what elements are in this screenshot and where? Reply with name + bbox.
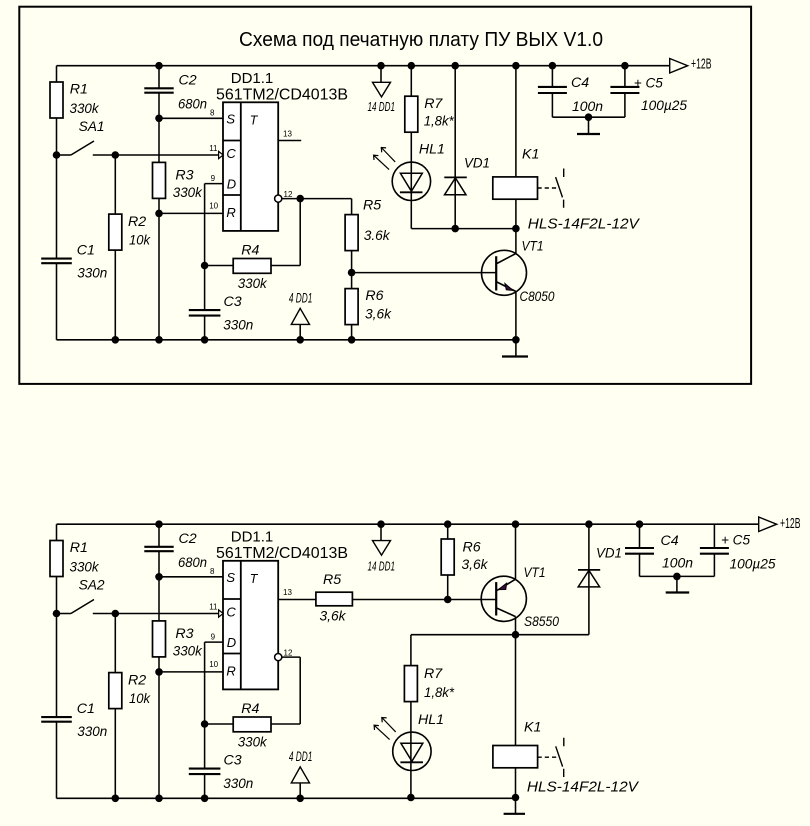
- node K1 ground rail B: [512, 794, 520, 802]
- label C8050: [520, 289, 555, 305]
- pin number 9: [211, 174, 216, 183]
- wire pin 8 S: [159, 117, 223, 119]
- label R7 B: [424, 666, 454, 701]
- svg-text:R2: R2: [128, 214, 146, 230]
- svg-text:330n: 330n: [223, 776, 253, 792]
- svg-text:HL1: HL1: [418, 712, 444, 728]
- capacitor C4 B: [625, 548, 654, 554]
- resistor R5: [345, 215, 358, 251]
- label 4 DD1: [289, 289, 313, 305]
- capacitor C3: [189, 310, 221, 316]
- label 561TM2/CD4013B: [216, 545, 348, 562]
- label +12V B: [780, 516, 801, 532]
- label C1: [77, 243, 108, 282]
- svg-text:R7: R7: [424, 666, 443, 682]
- svg-text:9: 9: [211, 633, 216, 642]
- label HL1 B: [418, 712, 444, 728]
- label 4 DD1: [289, 748, 313, 764]
- wire C2/R3 column: [158, 66, 160, 340]
- label R2: [128, 214, 151, 249]
- wire 4DD1 stub: [299, 324, 301, 339]
- svg-text:R4: R4: [241, 242, 259, 258]
- transistor VT1 base bar B: [495, 582, 497, 615]
- wire R7/HL1 column: [410, 66, 412, 229]
- resistor R7 B: [404, 666, 417, 702]
- wire pin 8 S: [159, 576, 223, 578]
- label 14 DD1 B: [368, 559, 396, 574]
- svg-text:T: T: [250, 114, 259, 128]
- svg-text:D: D: [227, 177, 236, 192]
- wire pin 12 to R5: [282, 198, 352, 200]
- wire R4 left: [205, 723, 234, 725]
- label C3: [223, 294, 253, 333]
- wire 14DD1 stub: [380, 66, 382, 83]
- svg-text:+ C5: + C5: [634, 76, 663, 92]
- wire R7/HL1 column B: [410, 635, 412, 798]
- wire VT1 emitter column: [515, 292, 517, 340]
- pin number 13: [283, 130, 292, 139]
- transistor VT1 collector B: [497, 608, 516, 617]
- wire pin 9 D to R4 junction: [205, 184, 223, 340]
- node C5 rail: [621, 62, 629, 70]
- svg-text:330k: 330k: [173, 185, 203, 201]
- wire VT1 collector column B: [515, 617, 517, 635]
- label +12V: [691, 57, 712, 73]
- wire top supply rail (right part): [159, 65, 670, 67]
- wire ground rail: [57, 339, 516, 341]
- wire R4 right to pin12 node: [271, 199, 300, 266]
- svg-text:C4: C4: [571, 75, 589, 91]
- svg-text:R3: R3: [175, 168, 193, 184]
- capacitor C2: [144, 547, 173, 551]
- svg-text:100n: 100n: [572, 99, 603, 115]
- svg-text:R2: R2: [128, 673, 146, 689]
- relay K1 coil: [493, 177, 538, 199]
- LED HL1 triangle B: [401, 743, 423, 761]
- resistor R1: [50, 82, 63, 118]
- diode VD1 bar B: [578, 569, 600, 571]
- label VT1: [522, 239, 544, 255]
- svg-text:R3: R3: [175, 626, 193, 642]
- resistor R6: [345, 289, 358, 325]
- node D/R4/C3 junction: [201, 262, 209, 270]
- svg-text:VT1: VT1: [522, 239, 544, 255]
- svg-text:R5: R5: [363, 198, 381, 214]
- relay K1 coil B: [493, 746, 538, 768]
- svg-text:R6: R6: [365, 288, 383, 304]
- pin number 11: [209, 144, 218, 153]
- capacitor C3: [189, 769, 221, 775]
- resistor R5 B: [316, 592, 353, 606]
- node SA2 left: [53, 610, 61, 618]
- IC letters S C D R T: [226, 570, 258, 679]
- svg-text:330k: 330k: [238, 276, 268, 292]
- svg-text:680n: 680n: [178, 96, 207, 112]
- svg-text:680n: 680n: [178, 555, 207, 571]
- title: [239, 28, 603, 51]
- label HL1: [419, 141, 445, 157]
- IC inner partition: [240, 102, 242, 231]
- node K1 rail: [512, 62, 520, 70]
- svg-text:1,8k*: 1,8k*: [424, 685, 454, 701]
- power arrow +12V B: [759, 517, 777, 532]
- power arrow +12V: [670, 59, 688, 74]
- label VD1: [464, 155, 490, 171]
- wire collector row B: [411, 634, 589, 636]
- capacitor C2: [144, 88, 173, 92]
- ground symbol K1 B: [504, 798, 525, 814]
- svg-text:R1: R1: [70, 82, 88, 98]
- svg-text:3,6k: 3,6k: [365, 307, 392, 323]
- svg-text:3,6k: 3,6k: [320, 609, 347, 625]
- power symbol 14 DD1: [373, 82, 391, 97]
- svg-text:100n: 100n: [662, 556, 693, 572]
- svg-text:+12В: +12В: [691, 57, 712, 73]
- node R3 bottom / pin10: [155, 668, 163, 676]
- wire C5 column: [624, 66, 626, 118]
- wire VD1 column: [454, 66, 456, 229]
- svg-text:S: S: [226, 570, 235, 585]
- wire K1 to ground B: [515, 768, 517, 798]
- svg-text:10: 10: [209, 660, 218, 669]
- node R5/R6 junction: [348, 269, 356, 277]
- svg-text:HLS-14F2L-12V: HLS-14F2L-12V: [527, 779, 640, 796]
- node ground rail: [155, 795, 163, 803]
- svg-text:R6: R6: [463, 540, 481, 556]
- svg-text:VD1: VD1: [596, 546, 622, 562]
- switch SA1: [57, 141, 95, 155]
- pin number 12: [284, 649, 293, 658]
- svg-text:C: C: [226, 605, 236, 620]
- output bubble pin 12: [275, 654, 282, 661]
- transistor VT1 emitter: [497, 282, 516, 292]
- svg-text:C8050: C8050: [520, 289, 555, 305]
- wire C4 column B: [639, 524, 641, 576]
- node collector row B: [512, 631, 520, 639]
- svg-text:SA1: SA1: [79, 119, 105, 135]
- IC cell line S/C: [223, 140, 241, 142]
- svg-text:3,6k: 3,6k: [462, 557, 489, 573]
- svg-text:R: R: [226, 205, 235, 220]
- node VD1 rail B: [585, 520, 593, 528]
- node R6 ground rail: [348, 336, 356, 344]
- transistor VT1 collector: [497, 254, 516, 264]
- node pin 12 junction: [296, 195, 304, 203]
- resistor R2: [109, 673, 122, 709]
- wire pin 10 R: [159, 671, 223, 673]
- node C4C5 ground tap B: [673, 573, 681, 581]
- svg-text:HLS-14F2L-12V: HLS-14F2L-12V: [528, 216, 641, 233]
- pin number 11: [209, 603, 218, 612]
- wire R5/R6 column: [351, 199, 353, 340]
- svg-text:8: 8: [210, 567, 215, 576]
- node C2 top: [155, 62, 163, 70]
- svg-text:K1: K1: [524, 720, 541, 736]
- resistor R7: [405, 96, 418, 132]
- wire R4 left: [205, 265, 234, 267]
- resistor R2: [109, 214, 122, 250]
- svg-text:+12В: +12В: [780, 516, 801, 532]
- pin number 12: [284, 190, 293, 199]
- node ground rail: [112, 795, 120, 803]
- svg-text:330k: 330k: [173, 644, 203, 660]
- diode VD1 triangle: [445, 178, 467, 195]
- node SA1 left: [53, 151, 61, 159]
- node ground rail: [296, 795, 304, 803]
- node R2 tap: [112, 151, 120, 159]
- wire R2 column: [114, 614, 116, 799]
- transistor VT1 circle: [482, 250, 527, 295]
- ground symbol VT1: [502, 340, 528, 357]
- wire top supply rail (left part): [57, 65, 160, 67]
- svg-text:R7: R7: [424, 96, 443, 112]
- wire R1/SA/C1 left column: [56, 524, 58, 798]
- ground symbol C4C5 B: [666, 576, 690, 592]
- LED HL1 triangle: [400, 173, 422, 191]
- label C2: [178, 531, 207, 571]
- label R1: [70, 82, 100, 117]
- svg-text:10k: 10k: [129, 233, 151, 249]
- node ground rail: [112, 336, 120, 344]
- label R7: [424, 96, 454, 130]
- node C4 rail: [549, 62, 557, 70]
- svg-text:C: C: [226, 146, 236, 161]
- label C4: [571, 75, 603, 115]
- IC DD1.1 flip-flop body: [223, 102, 278, 231]
- capacitor C5 B: [700, 548, 729, 554]
- svg-text:330n: 330n: [77, 724, 107, 740]
- pin number 8: [210, 567, 215, 576]
- svg-text:R: R: [226, 664, 235, 679]
- label S8550 B: [524, 614, 559, 630]
- node K1/VT1 row: [512, 225, 520, 233]
- pin number 10: [209, 201, 218, 210]
- svg-text:SA2: SA2: [79, 578, 105, 594]
- transistor VT1 circle B: [481, 576, 526, 621]
- wire base row: [352, 272, 497, 274]
- resistor R4: [233, 717, 271, 732]
- wire pin 9 D to R4 junction: [205, 642, 223, 798]
- label VD1 B: [596, 546, 622, 562]
- svg-text:10: 10: [209, 201, 218, 210]
- clock input arrowhead pin 11: [219, 151, 224, 158]
- node C2 top: [155, 520, 163, 528]
- wire top supply rail (right part) B: [159, 523, 759, 525]
- node C2 bottom / pin8: [155, 115, 163, 123]
- svg-text:R4: R4: [241, 701, 259, 717]
- node R6/base junction B: [444, 596, 452, 604]
- transistor VT1 emitter arrow: [505, 284, 513, 291]
- LED HL1 arrows B: [374, 718, 396, 740]
- wire R6 column B: [447, 524, 449, 599]
- pin number 8: [210, 108, 215, 117]
- wire C4 column: [551, 66, 553, 118]
- svg-text:1,8k*: 1,8k*: [424, 114, 454, 130]
- wire pin 12 corner B: [282, 656, 300, 658]
- wire R4 right to pin12 node: [271, 657, 300, 724]
- pin number 10: [209, 660, 218, 669]
- node 14DD1 rail B: [377, 520, 385, 528]
- svg-text:C4: C4: [661, 533, 679, 549]
- LED HL1 cathode bar B: [400, 761, 423, 763]
- svg-text:330n: 330n: [77, 265, 107, 281]
- wire pin11 C row: [93, 613, 220, 615]
- label DD1.1: [231, 529, 274, 546]
- IC cell line D/R: [223, 194, 241, 196]
- wire ground rail: [57, 797, 516, 799]
- wire top supply rail (left part): [57, 523, 160, 525]
- svg-text:12: 12: [284, 649, 293, 658]
- label DD1.1: [231, 70, 274, 87]
- svg-text:HL1: HL1: [419, 141, 445, 157]
- switch SA2: [57, 600, 95, 614]
- svg-text:VD1: VD1: [464, 155, 490, 171]
- wire R1/SA/C1 left column: [56, 66, 58, 340]
- svg-text:4 DD1: 4 DD1: [289, 748, 313, 764]
- wire C5 column B: [713, 524, 715, 576]
- svg-text:D: D: [227, 635, 236, 650]
- label R2: [128, 673, 151, 708]
- label + C5: [634, 76, 687, 115]
- wire VD1 column B: [588, 524, 590, 635]
- label R4: [238, 701, 268, 751]
- label 14 DD1: [368, 99, 396, 114]
- node 14DD1 rail: [377, 62, 385, 70]
- wire HL1-VD1-K1 row: [411, 228, 516, 230]
- resistor R1: [50, 541, 63, 577]
- node ground rail: [155, 336, 163, 344]
- label HLS-14F2L-12V B: [527, 779, 640, 796]
- pin number 9: [211, 633, 216, 642]
- output bubble pin 12: [275, 195, 282, 202]
- node D/R4/C3 junction: [201, 720, 209, 728]
- IC cell line D/R: [223, 653, 241, 655]
- node R6 rail B: [444, 520, 452, 528]
- svg-text:8: 8: [210, 108, 215, 117]
- label K1 B: [524, 720, 541, 736]
- transistor VT1 emitter arrow B: [498, 583, 506, 590]
- label 561TM2/CD4013B: [216, 86, 348, 103]
- label R6 B: [462, 540, 489, 574]
- wire C4-C5 link: [552, 116, 625, 118]
- svg-text:S8550: S8550: [524, 614, 559, 630]
- label SA2: [79, 578, 105, 594]
- node VT1 ground rail: [512, 336, 520, 344]
- svg-text:13: 13: [283, 130, 292, 139]
- node C2 bottom / pin8: [155, 573, 163, 581]
- svg-text:11: 11: [209, 144, 218, 153]
- svg-text:C2: C2: [179, 72, 197, 88]
- LED HL1 circle: [392, 162, 430, 200]
- LED HL1 cathode bar: [400, 191, 423, 193]
- wire pin 13 to R5 B: [278, 599, 316, 601]
- svg-text:14 DD1: 14 DD1: [368, 99, 396, 114]
- svg-text:100µ25: 100µ25: [730, 557, 776, 573]
- svg-text:C3: C3: [224, 753, 242, 769]
- svg-text:DD1.1: DD1.1: [231, 529, 274, 546]
- power symbol 4 DD1: [291, 767, 309, 783]
- wire R5 to base B: [352, 599, 496, 601]
- node ground rail: [201, 336, 209, 344]
- transistor VT1 emitter B: [497, 579, 516, 590]
- svg-text:330k: 330k: [70, 559, 100, 575]
- svg-text:DD1.1: DD1.1: [231, 70, 274, 87]
- svg-text:561ТМ2/CD4013В: 561ТМ2/CD4013В: [216, 545, 348, 562]
- capacitor C1: [41, 259, 72, 264]
- label R5 B: [320, 572, 347, 625]
- svg-text:9: 9: [211, 174, 216, 183]
- svg-text:561ТМ2/CD4013В: 561ТМ2/CD4013В: [216, 86, 348, 103]
- svg-text:12: 12: [284, 190, 293, 199]
- wire 4DD1 stub: [299, 783, 301, 798]
- svg-text:100µ25: 100µ25: [641, 98, 687, 114]
- IC cell line S/C: [223, 598, 241, 600]
- wire C4-C5 link B: [640, 575, 715, 577]
- relay K1 dashed link: [538, 187, 559, 189]
- label C3: [223, 753, 253, 792]
- diode VD1 triangle B: [578, 570, 599, 587]
- node C4C5 ground tap: [585, 113, 593, 121]
- label VT1 B: [524, 565, 546, 581]
- relay K1 dashed link B: [538, 756, 559, 758]
- node VD1 row: [451, 225, 459, 233]
- wire K1 column: [515, 66, 517, 255]
- svg-text:T: T: [250, 572, 259, 586]
- LED HL1 arrows: [374, 148, 396, 170]
- label R5: [363, 198, 391, 245]
- wire VT1 emitter column B: [515, 524, 517, 579]
- label C1: [77, 701, 108, 740]
- resistor R4: [233, 259, 271, 274]
- node R3 bottom / pin10: [155, 210, 163, 218]
- wire C2/R3 column: [158, 524, 160, 798]
- relay K1 contact B: [556, 738, 564, 777]
- node R7 rail: [408, 62, 416, 70]
- IC DD1.1 flip-flop body: [223, 561, 278, 690]
- node ground rail: [201, 795, 209, 803]
- svg-text:11: 11: [209, 603, 218, 612]
- label R3: [173, 168, 203, 202]
- svg-text:14 DD1: 14 DD1: [368, 559, 396, 574]
- svg-text:4 DD1: 4 DD1: [289, 289, 313, 305]
- node R2 tap: [112, 610, 120, 618]
- svg-text:10k: 10k: [129, 691, 151, 707]
- IC inner partition: [240, 561, 242, 690]
- svg-text:C1: C1: [77, 243, 95, 259]
- svg-text:Схема под печатную плату ПУ ВЫ: Схема под печатную плату ПУ ВЫХ V1.0: [239, 28, 603, 51]
- ground symbol C4C5: [577, 117, 600, 134]
- power symbol 14 DD1 B: [373, 541, 391, 556]
- svg-text:R1: R1: [70, 540, 88, 556]
- svg-text:S: S: [226, 111, 235, 126]
- label C4 B: [661, 533, 694, 572]
- label SA1: [79, 119, 105, 135]
- resistor R3: [153, 162, 166, 198]
- svg-text:C2: C2: [179, 531, 197, 547]
- pin number 13: [283, 588, 292, 597]
- svg-text:VT1: VT1: [524, 565, 546, 581]
- capacitor C1: [41, 717, 72, 722]
- svg-text:C1: C1: [77, 701, 95, 717]
- svg-text:330k: 330k: [70, 101, 100, 117]
- label R3: [173, 626, 203, 660]
- capacitor C5: [610, 87, 639, 93]
- svg-text:330k: 330k: [238, 735, 268, 751]
- IC letters S C D R T: [226, 111, 258, 220]
- svg-text:3.6k: 3.6k: [364, 228, 391, 244]
- wire 14DD1 stub B: [380, 524, 382, 540]
- wire pin 13 stub: [278, 140, 301, 142]
